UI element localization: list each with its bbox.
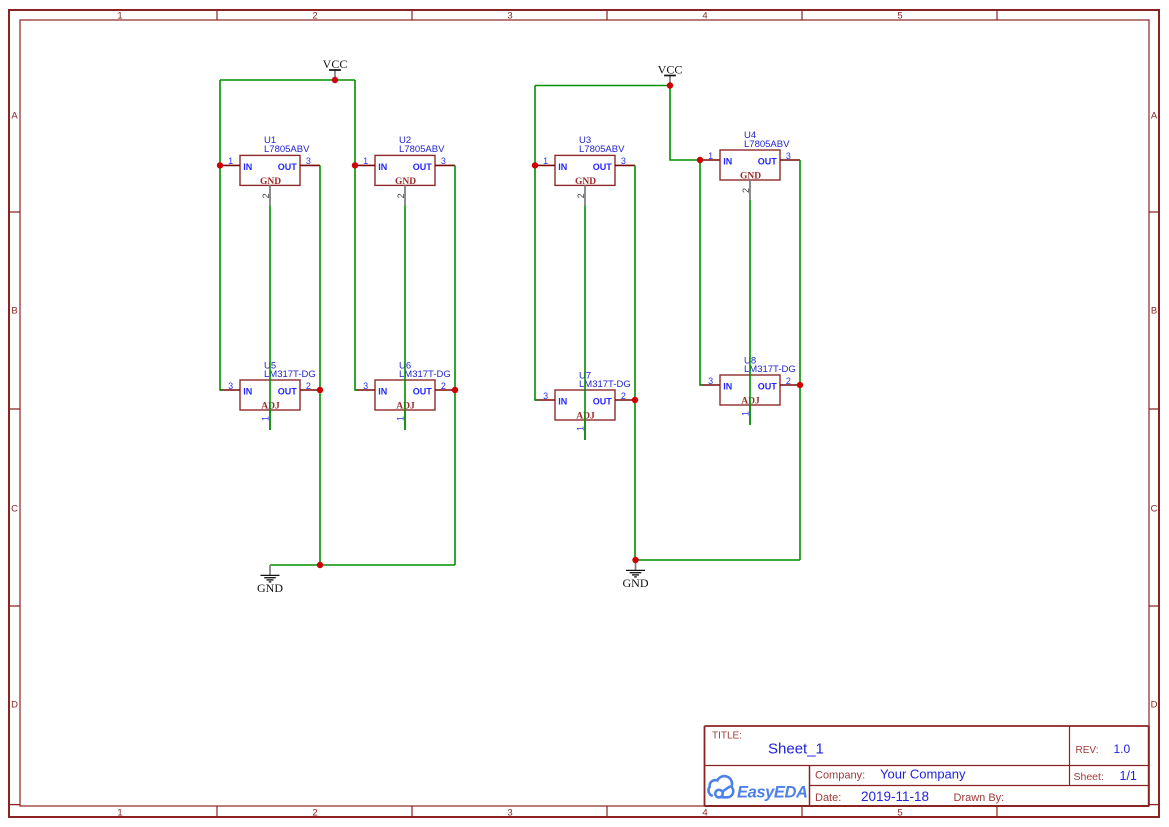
regulator U6 [355, 380, 455, 430]
wire U1 GND to U5 ADJ [269, 205, 271, 430]
svg-text:Date:: Date: [815, 792, 841, 804]
svg-text:1: 1 [117, 807, 122, 818]
svg-text:4: 4 [702, 807, 707, 818]
svg-text:Sheet_1: Sheet_1 [768, 741, 824, 758]
svg-text:2: 2 [312, 807, 317, 818]
svg-text:1: 1 [117, 10, 122, 21]
label U3 [579, 135, 625, 155]
svg-text:Drawn By:: Drawn By: [954, 792, 1005, 804]
svg-text:4: 4 [702, 10, 707, 21]
regulator U1 [220, 155, 320, 205]
svg-text:L7805ABV: L7805ABV [744, 139, 790, 150]
power flag VCC right [658, 63, 683, 86]
wire U3 GND to U7 ADJ [584, 205, 586, 440]
svg-text:C: C [1151, 504, 1158, 515]
svg-text:A: A [1151, 111, 1158, 122]
svg-text:5: 5 [897, 807, 902, 818]
svg-text:1.0: 1.0 [1114, 742, 1131, 756]
label U7 [579, 371, 631, 391]
wire U2 GND to U6 ADJ [404, 205, 406, 430]
junction U8 pin2 [797, 382, 803, 388]
wire U4 GND to U8 ADJ [749, 200, 751, 425]
svg-text:3: 3 [507, 807, 512, 818]
wire VCC rail left [220, 79, 355, 81]
svg-text:2019-11-18: 2019-11-18 [861, 789, 929, 804]
power flag VCC left [323, 57, 348, 80]
label U6 [399, 361, 451, 381]
svg-text:EasyEDA: EasyEDA [737, 784, 808, 802]
regulator U4 [700, 150, 800, 200]
svg-text:REV:: REV: [1076, 745, 1099, 756]
label U5 [264, 361, 316, 381]
junction VCC right [667, 82, 673, 88]
regulator U8 [700, 375, 800, 425]
svg-text:LM317T-DG: LM317T-DG [579, 379, 631, 390]
junction U7 pin2 [632, 397, 638, 403]
regulator U2 [355, 155, 455, 205]
svg-text:1/1: 1/1 [1120, 769, 1137, 783]
title block values [768, 741, 1137, 805]
ground flag GND right [623, 560, 649, 590]
svg-text:Sheet:: Sheet: [1074, 771, 1104, 783]
junction U4 pin1 [697, 157, 703, 163]
svg-text:L7805ABV: L7805ABV [579, 144, 625, 155]
wire VCC rail right [535, 85, 670, 87]
svg-text:5: 5 [897, 10, 902, 21]
svg-text:B: B [1151, 306, 1157, 317]
wire left rail to U5 IN [220, 80, 223, 390]
junction GND rail left [317, 562, 323, 568]
label U2 [399, 135, 445, 155]
label U8 [744, 356, 796, 376]
title block labels [712, 731, 1104, 805]
wire U3 OUT down to GND rail [634, 165, 636, 560]
svg-text:LM317T-DG: LM317T-DG [744, 364, 796, 375]
svg-text:Company:: Company: [815, 770, 865, 782]
svg-text:L7805ABV: L7805ABV [264, 144, 310, 155]
wire GND rail right [635, 559, 800, 561]
svg-text:D: D [11, 700, 18, 711]
label U4 [744, 130, 790, 150]
junction U6 pin2 [452, 387, 458, 393]
svg-text:LM317T-DG: LM317T-DG [399, 369, 451, 380]
wire mid rail to U6 IN [355, 80, 358, 390]
svg-text:C: C [11, 504, 18, 515]
regulator U5 [220, 380, 320, 430]
svg-text:LM317T-DG: LM317T-DG [264, 369, 316, 380]
regulator U3 [535, 155, 635, 205]
svg-text:Your Company: Your Company [880, 767, 966, 782]
junction U2 pin1 [352, 162, 358, 168]
svg-text:B: B [11, 306, 17, 317]
wire right rail to U7 IN [535, 86, 538, 401]
wire U4 OUT down to GND rail [799, 160, 801, 560]
junction GND rail right [632, 557, 638, 563]
junction VCC left [332, 77, 338, 83]
EasyEDA logo cloud [708, 776, 733, 797]
svg-text:TITLE:: TITLE: [712, 731, 742, 742]
svg-text:2: 2 [312, 10, 317, 21]
regulator U7 [535, 390, 635, 440]
svg-text:3: 3 [507, 10, 512, 21]
wire U4 IN rail to U8 IN [700, 160, 703, 385]
junction U3 pin1 [532, 162, 538, 168]
wire U2 OUT down to GND rail [454, 165, 456, 565]
svg-text:A: A [11, 111, 18, 122]
wire U1 OUT down to GND rail [319, 165, 321, 565]
svg-text:D: D [1151, 700, 1158, 711]
svg-text:L7805ABV: L7805ABV [399, 144, 445, 155]
wire GND rail left [270, 564, 455, 566]
junction U1 pin1 [217, 162, 223, 168]
title block lines [705, 726, 1150, 806]
ground flag GND left [257, 565, 283, 595]
junction U5 pin2 [317, 387, 323, 393]
label U1 [264, 135, 310, 155]
wire VCC to U4 IN [670, 86, 700, 161]
